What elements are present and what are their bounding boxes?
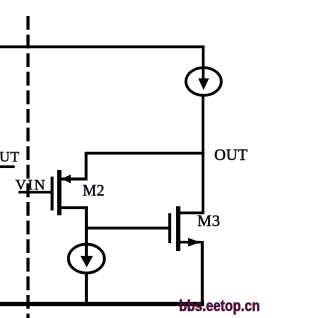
svg-text:M2: M2 <box>83 183 105 200</box>
ground rail <box>0 302 204 306</box>
node OUT stub at left edge <box>0 165 15 168</box>
svg-text:OUT: OUT <box>214 147 248 164</box>
current source I2 <box>68 244 104 273</box>
wire VIN to gate of M2 <box>18 191 52 194</box>
wire current source I2 to ground rail <box>85 273 88 306</box>
wire M2 drain riser <box>85 152 88 180</box>
dashed bias line <box>26 16 29 318</box>
wire node OUT to drain of M2 <box>85 152 204 155</box>
svg-text:M3: M3 <box>197 213 220 230</box>
wire top supply rail <box>0 45 204 48</box>
svg-text:bbs.eetop.cn: bbs.eetop.cn <box>179 298 260 315</box>
wire supply rail into current source I1 <box>202 46 205 81</box>
transistor M3 <box>170 206 204 251</box>
current source I1 <box>186 68 221 96</box>
wire M2 source into current source I2 <box>85 206 88 257</box>
wire M2 source to gate of M3 <box>85 227 170 230</box>
wire current source I1 to node OUT and M3 drain <box>202 95 205 214</box>
transistor M2 <box>52 170 88 215</box>
svg-text:UT: UT <box>0 149 20 165</box>
wire M3 source to ground rail <box>201 241 204 306</box>
